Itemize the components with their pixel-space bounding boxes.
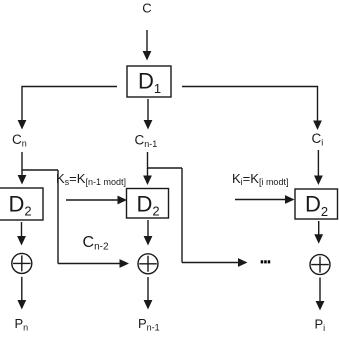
svg-text:C: C	[142, 1, 151, 16]
